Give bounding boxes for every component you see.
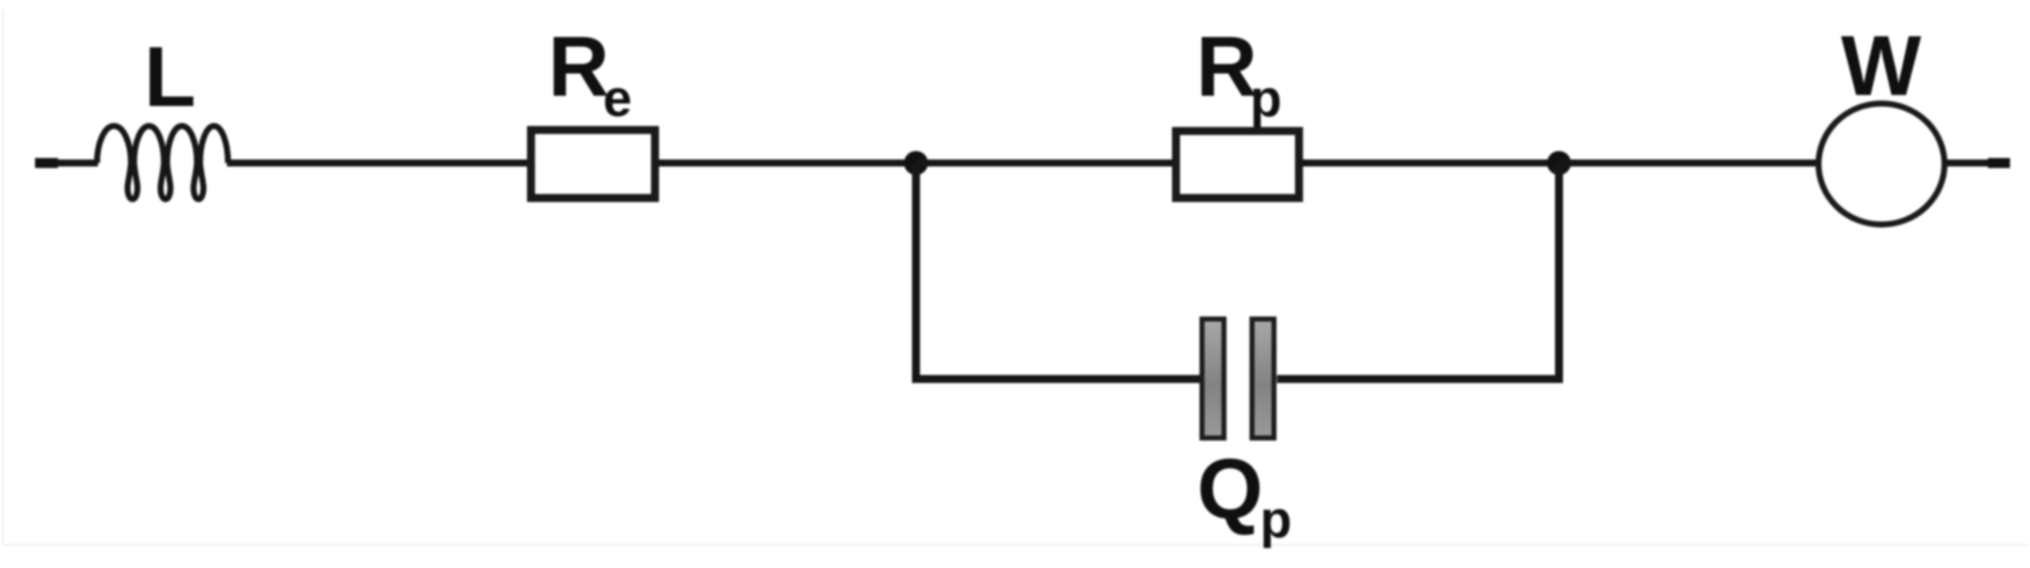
node A (junction dot) [904, 151, 928, 175]
svg-text:p: p [1250, 70, 1282, 128]
wire: right terminal stub [1988, 158, 2010, 168]
wire: bottom rail right (capacitor Qp to node B leg) [1277, 375, 1563, 383]
label Rp [1196, 20, 1282, 128]
frame: faint left edge [2, 10, 4, 545]
label Qp [1197, 442, 1292, 549]
wire: inductor to resistor Re [227, 160, 528, 167]
svg-text:e: e [603, 70, 632, 128]
label Re [548, 20, 632, 128]
resistor Re (box) [531, 130, 655, 198]
capacitor Qp (CPE) left plate [1202, 319, 1224, 438]
wire: left terminal stub [35, 158, 58, 168]
capacitor Qp (CPE) right plate [1252, 319, 1274, 438]
wire: node A to resistor Rp [916, 160, 1176, 167]
Warburg element W (circle) [1819, 104, 1945, 225]
inductor L (coil) [97, 126, 228, 199]
node B (junction dot) [1547, 151, 1571, 175]
wire: resistor Re to node A [659, 160, 916, 167]
wire: resistor Rp to node B [1299, 160, 1559, 167]
wire: node A down leg [912, 163, 920, 379]
svg-text:R: R [1196, 20, 1257, 115]
label L [144, 30, 196, 125]
wire: bottom rail left (node A leg to capacitor Qp) [912, 375, 1200, 383]
svg-text:L: L [144, 30, 196, 125]
svg-text:p: p [1260, 491, 1292, 549]
resistor Rp (box) [1176, 131, 1299, 198]
frame: faint bottom edge [3, 544, 2029, 546]
svg-text:Q: Q [1197, 442, 1263, 537]
svg-text:W: W [1841, 19, 1922, 114]
wire: left lead into inductor [56, 160, 98, 167]
wire: node B down leg [1555, 163, 1563, 379]
svg-text:R: R [548, 20, 609, 115]
wire: Warburg W to right edge [1944, 160, 2010, 167]
wire: node B to Warburg W [1559, 160, 1820, 167]
label W [1841, 19, 1922, 114]
